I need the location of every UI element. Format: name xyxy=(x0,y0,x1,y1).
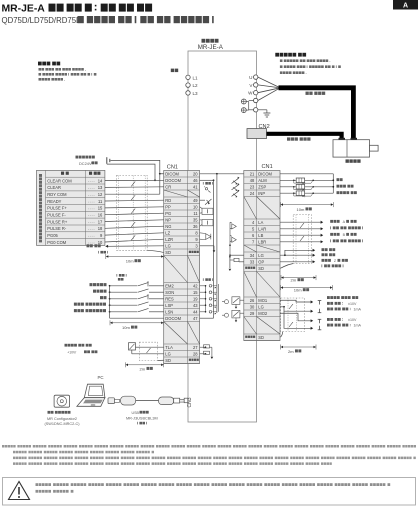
svg-text:SD: SD xyxy=(258,266,264,271)
table header myeongching / pin beonho xyxy=(61,172,69,175)
dimension 2m TLA xyxy=(126,362,164,367)
NP NG line receiver xyxy=(200,220,213,227)
PE wiring xyxy=(246,101,253,111)
svg-text:14: 14 xyxy=(98,178,103,183)
TLA internal circuit xyxy=(200,345,214,359)
svg-text:47: 47 xyxy=(193,316,198,321)
svg-text:LG: LG xyxy=(258,304,263,309)
svg-text:LG: LG xyxy=(165,351,170,356)
subtitle korean blocks xyxy=(78,16,214,23)
label differential line driver 1 xyxy=(330,226,363,229)
svg-text:LSP: LSP xyxy=(165,303,173,308)
voltmeter probes xyxy=(318,301,322,330)
encoder output wires LA LAR LB LBR xyxy=(280,221,323,244)
label control common xyxy=(87,244,101,247)
signal wires left xyxy=(105,180,164,242)
label interface DC24V power xyxy=(76,156,95,159)
svg-text:±10V: ±10V xyxy=(348,302,357,306)
CN3 connector label xyxy=(187,397,193,407)
svg-text:OP: OP xyxy=(258,259,264,264)
input switches and wiring xyxy=(109,281,164,318)
internal DOCOM rail xyxy=(200,179,215,318)
svg-text:A: A xyxy=(403,2,408,9)
warning text line1 xyxy=(36,483,391,486)
DAC MO2 xyxy=(222,310,244,322)
label DC24V jeonwon blocks xyxy=(92,161,98,164)
label output voltage 1 xyxy=(327,302,343,305)
svg-text:41: 41 xyxy=(193,184,198,189)
label 2m or less encoder xyxy=(291,278,297,283)
note ju1 xyxy=(98,251,108,254)
U V W fan wires to power cable xyxy=(258,77,279,100)
connector CN2 xyxy=(247,129,267,139)
svg-text:10: 10 xyxy=(193,204,198,209)
connector CN1 right label xyxy=(262,164,273,170)
svg-text:SON: SON xyxy=(165,290,174,295)
warning text line2 xyxy=(36,490,74,493)
svg-text:PULSE R+: PULSE R+ xyxy=(47,219,68,224)
svg-text:2m: 2m xyxy=(140,366,146,371)
svg-text:18: 18 xyxy=(98,226,103,231)
title korean blocks xyxy=(49,4,153,12)
label servo amp xyxy=(202,39,219,43)
svg-text:LZR: LZR xyxy=(165,237,173,242)
label 10m or less left xyxy=(126,259,134,264)
svg-text:CN1: CN1 xyxy=(262,164,273,170)
svg-text:46: 46 xyxy=(193,178,198,183)
svg-text:26: 26 xyxy=(250,298,255,303)
svg-text:2m: 2m xyxy=(291,278,297,283)
input opto couplers EM2 SON RES LSP LSN xyxy=(200,284,219,315)
servo motor xyxy=(333,138,378,157)
svg-text:MO2: MO2 xyxy=(258,311,268,316)
corner tab A xyxy=(393,0,418,10)
servo amplifier body MR-JE-A xyxy=(188,51,257,422)
terminal L2 xyxy=(186,83,198,88)
svg-text:W: W xyxy=(248,91,253,96)
svg-text:READY: READY xyxy=(47,199,61,204)
svg-text:EM2: EM2 xyxy=(165,283,174,288)
subtitle xyxy=(2,16,83,25)
svg-text:LG: LG xyxy=(258,253,263,258)
servo motor connection heading xyxy=(275,53,306,57)
relay output wiring ALM ZSP INP xyxy=(280,174,334,197)
label zero speed detection xyxy=(337,185,354,188)
terminal PE upper xyxy=(254,98,258,102)
rotated label positioning unit xyxy=(39,174,42,242)
label ju4 xyxy=(137,422,147,425)
label output voltage 2 xyxy=(327,318,343,321)
heading jeonwon-ui jeopsok xyxy=(38,62,60,66)
control common wire and arrow xyxy=(106,245,164,248)
svg-text:Z: Z xyxy=(334,259,337,263)
CN1 left table texts xyxy=(165,171,199,363)
motor note line2 xyxy=(280,65,341,68)
svg-text:42: 42 xyxy=(193,283,198,288)
protective earth symbols xyxy=(241,99,246,113)
svg-text:RD: RD xyxy=(165,198,171,203)
svg-text:QD75D/LD75D/RD75D: QD75D/LD75D/RD75D xyxy=(2,16,83,25)
PP PG line receiver xyxy=(200,207,213,215)
svg-text:DOCOM: DOCOM xyxy=(165,316,181,321)
note text line2 xyxy=(39,73,97,76)
svg-text:15: 15 xyxy=(193,290,198,295)
svg-text:28: 28 xyxy=(193,351,198,356)
svg-text:LZ: LZ xyxy=(165,230,170,235)
twisted pair marks left xyxy=(131,182,135,241)
label analog monitor output xyxy=(327,296,358,299)
USB cable assembly xyxy=(108,396,188,405)
label analog torque limit xyxy=(65,344,92,347)
connector CN2 label xyxy=(259,124,270,130)
svg-text:12: 12 xyxy=(98,192,103,197)
svg-text:34: 34 xyxy=(250,253,255,258)
svg-text:24: 24 xyxy=(250,191,255,196)
label max output current 2 xyxy=(327,324,351,327)
power cable thick xyxy=(279,88,354,140)
svg-text:(SW1DNC-MRC2-C): (SW1DNC-MRC2-C) xyxy=(44,422,80,426)
dimension 2m encoder xyxy=(281,275,316,280)
svg-text:LB: LB xyxy=(258,233,263,238)
svg-text:13: 13 xyxy=(98,185,103,190)
TLA wires xyxy=(132,347,164,360)
encoder cable thick xyxy=(267,134,342,140)
svg-text:23: 23 xyxy=(250,184,255,189)
encoder shield to SD xyxy=(280,264,293,269)
terminal U xyxy=(249,75,258,80)
svg-text:DICOM: DICOM xyxy=(165,171,179,176)
CR opto xyxy=(204,187,211,193)
note text line3 xyxy=(39,78,66,81)
svg-text:B: B xyxy=(343,233,346,237)
svg-text:MR-J3USBCBL3M: MR-J3USBCBL3M xyxy=(126,416,158,420)
label differential line driver 2 xyxy=(330,239,363,242)
svg-text:NP: NP xyxy=(165,217,171,222)
label encoder cable xyxy=(287,137,311,140)
output transistor symbols ALM ZSP INP xyxy=(232,177,240,198)
svg-text:PULSE F-: PULSE F- xyxy=(47,213,66,218)
differential driver LB LBR xyxy=(230,235,236,242)
label encoder A phase pulse xyxy=(330,220,339,223)
label control common 2 xyxy=(322,253,336,256)
LG internal ground xyxy=(200,246,216,253)
svg-text:USB: USB xyxy=(132,411,140,415)
svg-text:16: 16 xyxy=(98,213,103,218)
CN1 right table texts xyxy=(245,171,272,340)
svg-text:10m: 10m xyxy=(126,259,134,264)
dimension 10m left xyxy=(106,254,164,259)
svg-text:PG: PG xyxy=(165,211,171,216)
terminal PE lower xyxy=(254,108,258,112)
svg-text:L3: L3 xyxy=(193,91,199,96)
svg-text:LBR: LBR xyxy=(258,239,266,244)
svg-text:21: 21 xyxy=(250,171,255,176)
positioning unit table QD75/LD75/RD75 xyxy=(37,170,105,245)
wire 24V plus to DICOM xyxy=(111,160,164,194)
svg-text:10: 10 xyxy=(98,240,103,245)
svg-text:17: 17 xyxy=(98,219,103,224)
battery symbol DC24V xyxy=(107,157,110,164)
label max output current 1 xyxy=(327,308,351,311)
svg-text:19: 19 xyxy=(193,296,198,301)
svg-text:LSN: LSN xyxy=(165,309,173,314)
svg-text:15: 15 xyxy=(98,206,103,211)
svg-text:33: 33 xyxy=(250,259,255,264)
svg-text:SD: SD xyxy=(165,250,171,255)
internal DICOM crossover wire xyxy=(200,173,244,313)
svg-text:SD: SD xyxy=(258,335,264,340)
svg-text:20: 20 xyxy=(193,171,198,176)
power connection note box xyxy=(0,0,1,1)
svg-text:CLEAR COM: CLEAR COM xyxy=(47,178,72,183)
svg-text:27: 27 xyxy=(193,345,198,350)
monitor shield to SD xyxy=(281,332,283,338)
svg-text:48: 48 xyxy=(250,178,255,183)
svg-text:PP: PP xyxy=(165,204,171,209)
ground wire and earth xyxy=(258,110,271,117)
svg-text:INP: INP xyxy=(258,191,265,196)
svg-text:L2: L2 xyxy=(193,83,199,88)
control common wires LG xyxy=(280,249,315,257)
LZ LZR receiver diode xyxy=(200,233,211,240)
svg-text:A: A xyxy=(343,220,346,224)
encoder output dashed shield box xyxy=(293,215,311,264)
terminal L1 xyxy=(186,75,198,80)
svg-text:TLA: TLA xyxy=(165,345,173,350)
warning box xyxy=(3,478,416,506)
svg-text:36: 36 xyxy=(193,224,198,229)
svg-text:1mA: 1mA xyxy=(354,308,362,312)
svg-text:44: 44 xyxy=(193,309,198,314)
svg-text:10m: 10m xyxy=(297,207,305,212)
label setup software xyxy=(48,411,71,414)
note text line1 xyxy=(39,68,86,71)
monitor output wires MO1 xyxy=(280,300,313,312)
RD opto xyxy=(200,199,212,205)
svg-text:MR-JE-A: MR-JE-A xyxy=(198,44,224,51)
svg-text:ALM: ALM xyxy=(258,178,267,183)
motor note line3 xyxy=(280,71,307,74)
dimension 10m encoder xyxy=(281,285,333,290)
svg-text:PULSE F+: PULSE F+ xyxy=(47,206,67,211)
svg-text:PG05: PG05 xyxy=(47,233,58,238)
table rows signal names and pins xyxy=(47,178,103,244)
page title MR-JE-A xyxy=(2,4,46,15)
svg-text:V: V xyxy=(249,83,253,88)
svg-text:DICOM: DICOM xyxy=(258,171,272,176)
svg-text:30: 30 xyxy=(250,304,255,309)
svg-text:NG: NG xyxy=(165,224,171,229)
wire 24V minus to DOCOM xyxy=(107,164,156,181)
encoder Z phase wire OP xyxy=(280,260,315,263)
svg-text:LA: LA xyxy=(258,220,263,225)
svg-text:11: 11 xyxy=(193,211,198,216)
note ju2 top xyxy=(203,182,213,185)
torque potentiometer xyxy=(129,343,140,354)
svg-text:29: 29 xyxy=(250,311,255,316)
motor note line1 xyxy=(280,59,330,62)
svg-text:PG0 COM: PG0 COM xyxy=(47,240,66,245)
svg-text:±10V: ±10V xyxy=(348,318,357,322)
svg-text:DC24V: DC24V xyxy=(79,161,92,166)
label open collector xyxy=(322,264,344,267)
label fault xyxy=(337,178,343,181)
DAC MO1 xyxy=(222,297,244,309)
warning triangle xyxy=(9,482,30,500)
svg-text:43: 43 xyxy=(193,303,198,308)
svg-text:10m: 10m xyxy=(122,325,130,330)
svg-text:1mA: 1mA xyxy=(354,324,362,328)
label power (jeonwon) xyxy=(171,69,178,73)
label PC xyxy=(98,375,104,380)
svg-text:LG: LG xyxy=(165,243,170,248)
svg-text:MO1: MO1 xyxy=(258,298,268,303)
svg-text:35: 35 xyxy=(193,217,198,222)
setup software CD xyxy=(54,395,70,407)
notes block xyxy=(2,445,416,465)
label in-position xyxy=(337,191,357,194)
dimension 2m monitor xyxy=(281,345,317,350)
dimension 10m relay xyxy=(281,202,334,207)
svg-text:MR Configurator2: MR Configurator2 xyxy=(47,417,77,421)
svg-text:CN1: CN1 xyxy=(167,165,178,171)
label 10m or less inputs xyxy=(122,325,130,330)
monitor output dashed box xyxy=(281,298,305,332)
label 2m or less monitor xyxy=(288,349,294,354)
svg-text:ZSP: ZSP xyxy=(258,184,266,189)
svg-text:PC: PC xyxy=(98,375,104,380)
svg-text:L1: L1 xyxy=(193,75,199,80)
svg-text:SD: SD xyxy=(165,358,171,363)
OP pull-up resistor xyxy=(229,255,244,271)
note ju2 bottom xyxy=(203,278,213,281)
label power cable xyxy=(306,92,326,95)
note ju3 dedicated xyxy=(117,274,127,277)
svg-text:DOCOM: DOCOM xyxy=(165,178,181,183)
svg-text:MR-JE-A: MR-JE-A xyxy=(2,4,46,15)
shield dashed box left xyxy=(116,175,147,250)
label USB cable xyxy=(132,411,140,415)
label control common 1 xyxy=(322,248,336,251)
terminal L3 xyxy=(186,91,198,96)
terminal V xyxy=(249,83,257,88)
svg-text:49: 49 xyxy=(193,198,198,203)
svg-text:2m: 2m xyxy=(288,349,294,354)
svg-text:RDY COM: RDY COM xyxy=(47,192,67,197)
shield wire to SD xyxy=(147,250,164,252)
TLA dashed shield box xyxy=(139,342,157,360)
svg-text:CLEAR: CLEAR xyxy=(47,185,61,190)
label 10m or less encoder xyxy=(294,288,302,293)
internal LG vertical xyxy=(229,222,244,256)
dimension 10m inputs xyxy=(110,320,164,325)
label servo motor xyxy=(346,159,361,162)
svg-text:11: 11 xyxy=(98,199,103,204)
laptop PC xyxy=(77,384,105,406)
svg-text:LAR: LAR xyxy=(258,226,266,231)
differential driver LA LAR xyxy=(230,222,236,229)
input switch labels xyxy=(74,283,107,312)
connector CN1 right table xyxy=(244,171,280,341)
svg-text:U: U xyxy=(249,75,252,80)
svg-text:CR: CR xyxy=(165,184,171,189)
svg-text:RES: RES xyxy=(165,296,174,301)
connector CN1 left table xyxy=(164,171,200,364)
label encoder B phase pulse xyxy=(330,233,339,236)
label 10m or less relay xyxy=(297,207,305,212)
svg-text:10m: 10m xyxy=(294,288,302,293)
terminal W xyxy=(248,91,258,96)
label 2m or less TLA xyxy=(140,366,146,371)
svg-text:+10V/: +10V/ xyxy=(67,351,76,355)
label encoder Z phase pulse xyxy=(322,259,331,262)
monitor output wires MO2 xyxy=(280,304,313,330)
connector CN1 left label xyxy=(167,165,178,171)
svg-text:PULSE R-: PULSE R- xyxy=(47,226,67,231)
